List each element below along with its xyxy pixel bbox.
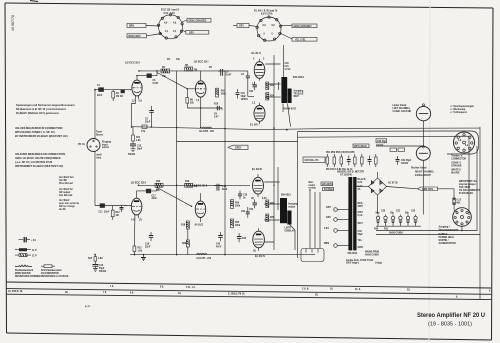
resistor R24 [266, 93, 275, 101]
svg-text:Versorgungsgerät: Versorgungsgerät [439, 228, 459, 231]
svg-text:C 6, 8;: C 6, 8; [302, 288, 309, 290]
capacitor C12 [128, 144, 143, 156]
svg-text:LEFT CHANNEL: LEFT CHANNEL [393, 107, 411, 110]
wire anode rail upper [139, 70, 240, 72]
svg-text:50µF: 50µF [241, 96, 247, 98]
wire input vertical lower [94, 152, 96, 206]
wire cap bank bus [376, 225, 421, 227]
svg-text:C31: C31 [396, 211, 401, 213]
svg-text:C23: C23 [249, 209, 254, 211]
svg-text:C12: C12 [137, 146, 142, 148]
extra labels caps row [374, 211, 416, 231]
svg-text:5, 23/6,8; P6 16,: 5, 23/6,8; P6 16, [228, 294, 245, 296]
svg-text:0,047: 0,047 [153, 82, 159, 85]
svg-text:22nF: 22nF [104, 212, 110, 214]
wire EL84 III anode to T2 [264, 182, 279, 204]
wire [151, 116, 153, 126]
svg-text:C21: C21 [285, 66, 290, 68]
capacitor C42 [216, 232, 223, 248]
svg-text:C13: C13 [99, 265, 104, 267]
wire bus A [6, 282, 491, 288]
wire T2 secondary down [290, 225, 296, 251]
svg-text:6,3V: 6,3V [358, 186, 363, 188]
wire mains 1 [309, 190, 311, 249]
svg-text:Ue=40mV for: Ue=40mV for [59, 188, 73, 191]
speaker right channel [411, 146, 435, 177]
svg-text:EL 84 II: EL 84 II [252, 51, 261, 55]
svg-text:MAUVE: MAUVE [451, 172, 460, 175]
resistor R8 [185, 65, 198, 72]
svg-text:TR BLUE: TR BLUE [294, 93, 304, 95]
svg-text:500/2k: 500/2k [99, 271, 107, 273]
svg-text:WITH RADIO-TUNER ( f.i. NF 1: WITH RADIO-TUNER ( f.i. NF 10 ) [15, 130, 55, 134]
wire rail y141.5 [177, 141, 298, 143]
resistor R18 [181, 221, 189, 232]
wire to speaker2 [376, 145, 424, 147]
wire B+ rail long [132, 127, 480, 130]
svg-text:22nF: 22nF [145, 121, 151, 123]
extra pin labels EL84 [251, 59, 267, 253]
svg-text:A6 B (7): A6 B (7) [195, 224, 204, 227]
svg-text:Stereo: Stereo [96, 133, 104, 136]
svg-text:26,: 26, [315, 295, 319, 297]
svg-text:≈= Gleichspannungen: ≈= Gleichspannungen [450, 105, 475, 108]
svg-text:mains: mains [309, 185, 316, 187]
capacitor C34 [414, 215, 417, 227]
legend wirewound [15, 265, 41, 278]
wire speaker 2 down [422, 160, 424, 214]
svg-text:C32 50µF: C32 50µF [401, 160, 412, 162]
svg-text:BRN: BRN [324, 243, 329, 245]
svg-text:Geräte-Sich. FUSE T0,8A: Geräte-Sich. FUSE T0,8A [346, 259, 374, 262]
resistor R11 [132, 127, 142, 144]
fuse F1 [453, 198, 462, 205]
svg-text:WHITE U: WHITE U [451, 170, 461, 172]
svg-text:R2,5 R2,5 6,8k 50µ 1k 1k: R2,5 R2,5 6,8k 50µ 1k 1k [326, 169, 353, 171]
svg-text:RESISTANCE A COUCHE: RESISTANCE A COUCHE [41, 275, 69, 278]
svg-text:7 6,: 7 6, [103, 292, 107, 294]
wire socket down [461, 226, 463, 230]
svg-text:500/2k: 500/2k [128, 154, 136, 156]
legend right [450, 105, 475, 114]
wire T1 secondary [288, 104, 291, 127]
svg-text:500-0313: 500-0313 [281, 195, 291, 197]
svg-text:IF DOUBLES: IF DOUBLES [459, 193, 473, 195]
svg-text:R12: R12 [116, 212, 121, 214]
svg-text:BRN: BRN [129, 26, 134, 28]
resistor R16 [185, 181, 198, 188]
extra labels transformer right [358, 186, 364, 225]
svg-text:ECC 83 I and II: ECC 83 I and II [161, 8, 179, 12]
resistor network row [326, 151, 377, 171]
svg-text:R13: R13 [156, 181, 161, 183]
resistor R14 input ground [88, 255, 103, 264]
svg-text:PO 10,: PO 10, [78, 144, 86, 146]
connector circle 1 [326, 207, 349, 211]
extra labels upper channel [167, 58, 219, 106]
svg-text:(19 - 8035 - 1001): (19 - 8035 - 1001) [428, 322, 472, 328]
legend resistor symbol open [15, 254, 37, 258]
label box GRY [186, 31, 209, 35]
svg-text:p. m.: p. m. [85, 306, 91, 308]
svg-text:≈= Tonfrequenz: ≈= Tonfrequenz [450, 111, 468, 114]
svg-text:500-0313: 500-0313 [293, 75, 305, 79]
svg-text:6,3V 0,76A: 6,3V 0,76A [261, 13, 273, 16]
tube socket ECC83 I and II [157, 8, 183, 40]
svg-text:≈= Wechselsp.: ≈= Wechselsp. [450, 108, 466, 111]
svg-text:IMPORTANT: No: IMPORTANT: No [459, 180, 477, 183]
label box GRY2 [237, 24, 249, 28]
svg-text:Ausgang: Ausgang [294, 90, 304, 93]
svg-text:R20: R20 [182, 243, 187, 245]
note french [15, 151, 65, 168]
svg-text:RESISTANCE BOBINEE: RESISTANCE BOBINEE [15, 275, 41, 278]
svg-text:1,8k: 1,8k [138, 251, 143, 253]
wire gry link [233, 25, 237, 27]
wire rail x225 [224, 71, 226, 127]
svg-text:entrée: entrée [102, 146, 110, 149]
svg-text:NF-Baustein (z.B. NF 10 ): NF-Baustein (z.B. NF 10 ) mit Instrument [16, 107, 66, 111]
capacitor C33 [405, 213, 410, 227]
wire cathode lower [187, 107, 222, 109]
svg-text:WIRE WOUND: WIRE WOUND [15, 273, 31, 275]
wire anode link upper [137, 75, 147, 77]
svg-text:AH50 CU/BH: AH50 CU/BH [365, 254, 379, 257]
resistor R20 [182, 232, 189, 255]
svg-text:C42: C42 [216, 243, 221, 246]
svg-text:6,3V: 6,3V [262, 198, 267, 200]
svg-text:R51 R52 R53 C35 R54 R55: R51 R52 R53 C35 R54 R55 [326, 151, 355, 154]
svg-text:C22: C22 [249, 91, 254, 93]
svg-text:SCHW. U: SCHW. U [451, 163, 461, 165]
socket top labels [451, 156, 466, 175]
resistor R45 [231, 219, 241, 228]
svg-text:1/2 ECC 83 II: 1/2 ECC 83 II [192, 183, 208, 187]
resistor R13 [155, 181, 163, 192]
input socket jack [78, 132, 112, 160]
legend film resistor [41, 265, 69, 278]
svg-text:16,: 16, [330, 289, 334, 291]
capacitor C11 [98, 203, 110, 213]
svg-text:C24: C24 [241, 210, 246, 213]
svg-text:EL 84 III: EL 84 III [252, 167, 262, 171]
resistor R6 [186, 98, 195, 108]
capacitor C32 [399, 215, 402, 227]
svg-text:RED: RED [358, 203, 363, 205]
svg-text:TO AIR CONNECTS: TO AIR CONNECTS [459, 189, 481, 192]
capacitor C18 [214, 184, 227, 191]
svg-text:4W output: 4W output [59, 191, 70, 194]
wire coupling diagonal to V1b [157, 73, 187, 89]
svg-text:C25: C25 [242, 238, 247, 240]
wire heater drop [282, 45, 284, 77]
wire outer box right [479, 127, 481, 299]
svg-text:OPT/+50mV: OPT/+50mV [354, 146, 367, 148]
wire transformer to bridge [357, 186, 369, 188]
svg-text:270V: 270V [358, 212, 364, 214]
svg-text:Ua=4W: Ua=4W [59, 179, 68, 182]
capacitor C22 [249, 82, 257, 94]
svg-text:MA.: MA. [457, 201, 462, 204]
svg-text:blau: blau [96, 157, 101, 159]
svg-text:AH 1255 - 202: AH 1255 - 202 [196, 257, 212, 260]
resistor R52 [333, 154, 336, 167]
svg-text:10 987/78: 10 987/78 [11, 15, 15, 31]
wire EL84 IV anode to T2 [264, 220, 279, 242]
resistor R1 [112, 90, 120, 101]
svg-text:AH50 CU/BH: AH50 CU/BH [389, 232, 403, 235]
capacitor C24 coupling lower [241, 207, 250, 218]
wire bridge out [387, 187, 418, 189]
svg-text:R21: R21 [138, 248, 143, 250]
svg-text:GRN | GRN-RED: GRN | GRN-RED [189, 20, 207, 22]
svg-text:output: output [288, 205, 295, 208]
svg-text:C33: C33 [411, 211, 416, 213]
svg-text:≈ K1: ≈ K1 [31, 239, 37, 242]
svg-text:(7): (7) [139, 220, 142, 222]
capacitor C32 [396, 156, 412, 165]
svg-text:(2): (2) [253, 251, 256, 253]
wire speaker join [423, 121, 425, 146]
svg-text:21, 6,: 21, 6, [355, 289, 361, 291]
wire EL84 II anode to T1 [265, 64, 280, 84]
wire [182, 30, 186, 32]
capacitor C29 [376, 213, 381, 227]
svg-text:WHT: WHT [358, 223, 364, 225]
svg-text:GRN: GRN [358, 247, 363, 249]
choke AH1255-202 lower [196, 253, 212, 260]
capacitor C13 with ground [93, 265, 107, 274]
capacitor C19 [238, 191, 248, 200]
svg-text:R41: R41 [384, 228, 389, 231]
svg-text:250V: 250V [358, 206, 364, 208]
svg-text:C28 604+176: C28 604+176 [305, 159, 320, 162]
svg-text:BRN | WHT: BRN | WHT [129, 36, 142, 38]
svg-text:WHT: WHT [294, 96, 300, 98]
svg-text:11 P: 11 P [32, 256, 37, 258]
svg-text:GRY: GRY [326, 207, 331, 209]
svg-text:(2): (2) [251, 198, 254, 200]
box C28 [303, 157, 325, 163]
wire [182, 20, 187, 22]
resistor R55 [361, 154, 364, 167]
svg-text:16,: 16, [178, 293, 182, 295]
fold crease [429, 0, 430, 343]
capacitor C31 [390, 213, 395, 227]
svg-text:C17: C17 [152, 195, 157, 197]
svg-text:GRY: GRY [326, 217, 331, 219]
svg-text:R14: R14 [88, 257, 93, 260]
capacitor C36 [368, 156, 372, 166]
svg-text:Ausgang: Ausgang [288, 203, 298, 206]
svg-text:Schichtwiderstand: Schichtwiderstand [41, 269, 62, 272]
pentode EL84 I [250, 103, 265, 127]
label box BRN-WHT [127, 34, 147, 38]
wire rail x176 [176, 71, 178, 255]
svg-text:R16: R16 [185, 181, 190, 183]
capacitor C17 [146, 185, 158, 200]
svg-text:19, 23/6,8; 46,: 19, 23/6,8; 46, [8, 290, 23, 293]
svg-text:Eingang: Eingang [102, 142, 112, 144]
choke AH1255-202 [199, 127, 215, 133]
svg-text:4W sur charge: 4W sur charge [59, 205, 76, 208]
wire inner rail [298, 131, 477, 231]
svg-text:ALIMENTATION: ALIMENTATION [439, 242, 456, 245]
svg-text:GREY: GREY [235, 147, 242, 149]
ground symbol bus [141, 255, 146, 261]
wire inner box [298, 136, 469, 215]
svg-text:GRY: GRY [239, 26, 244, 28]
svg-text:C7a: C7a [141, 131, 146, 133]
svg-text:R40: R40 [374, 228, 379, 231]
svg-text:220-240V~: 220-240V~ [322, 183, 334, 186]
svg-text:22nF: 22nF [222, 189, 228, 191]
svg-text:AH 1255 - 202: AH 1255 - 202 [199, 130, 215, 133]
wire screen vertical lower [277, 167, 279, 210]
power transformer TR [337, 171, 383, 265]
connector circle 4 [324, 243, 349, 247]
svg-text:GRAUBR.: GRAUBR. [451, 165, 462, 168]
fuse holder C7a [141, 125, 147, 133]
svg-text:C35 50µ: C35 50µ [377, 141, 386, 143]
svg-text:Ue=40mV bei: Ue=40mV bei [59, 176, 74, 179]
note levels 2 [59, 188, 73, 197]
svg-text:EL 84 IV: EL 84 IV [255, 254, 265, 258]
connector circle 2 [326, 217, 349, 221]
svg-text:C19: C19 [243, 195, 248, 197]
svg-text:EL 84 I, II, III and IV: EL 84 I, II, III and IV [254, 9, 278, 13]
resistor R5 [161, 67, 170, 78]
svg-text:0,5A: 0,5A [324, 227, 329, 230]
bridge rectifier [369, 178, 399, 195]
svg-text:Linker Kanal: Linker Kanal [393, 105, 407, 107]
svg-text:reseau: reseau [309, 188, 317, 190]
svg-text:GRN | GRN-WHT: GRN | GRN-WHT [294, 26, 313, 28]
svg-text:16/18V: 16/18V [376, 145, 384, 147]
note levels 1 [59, 176, 74, 185]
label box YEL [292, 38, 317, 42]
svg-text:RIGHT CHANNEL: RIGHT CHANNEL [415, 171, 435, 174]
legend capacitor symbol [19, 237, 37, 242]
mains freq box [323, 188, 334, 192]
svg-text:MAINS PRIM.: MAINS PRIM. [365, 251, 380, 254]
wire grid feed lower [95, 205, 132, 207]
resistor R54 [354, 154, 357, 167]
wire C4 to EL84 grid [248, 82, 254, 97]
wire to EL84 socket [249, 26, 258, 27]
triode V1b 1/2 ECC83 I [194, 60, 209, 109]
note german [16, 103, 75, 115]
wire bus B [6, 289, 491, 295]
svg-text:0,12: 0,12 [457, 200, 462, 202]
capacitor C9 [218, 69, 232, 77]
tube socket EL84 I II III IV [254, 9, 282, 42]
svg-text:R10: R10 [214, 104, 219, 106]
svg-text:Netz: Netz [309, 181, 315, 184]
resistor R22 [266, 82, 275, 90]
svg-text:5 11, 1 6,: 5 11, 1 6, [186, 287, 196, 289]
svg-text:Rechter Kanal: Rechter Kanal [411, 167, 427, 170]
wire fuse to socket [454, 205, 457, 213]
svg-text:BLACK: BLACK [358, 178, 366, 181]
wire [147, 34, 163, 36]
svg-text:R45: R45 [235, 221, 240, 224]
resistor R53 [340, 154, 343, 167]
wire V1b grid [187, 89, 195, 98]
resistor R23 [266, 200, 275, 208]
resistor R10 [216, 88, 227, 97]
svg-text:de 3Ω: de 3Ω [59, 209, 66, 211]
svg-text:1/2 ECC 83 I: 1/2 ECC 83 I [194, 60, 209, 64]
svg-text:C11: C11 [98, 212, 103, 214]
svg-text:AT 120/240: AT 120/240 [340, 174, 353, 177]
wire mains 3 [319, 192, 321, 249]
wire [146, 25, 160, 28]
svg-text:4,7nF: 4,7nF [285, 68, 292, 71]
resistor R56 [375, 154, 378, 167]
socket labels [439, 226, 459, 245]
svg-text:internal jumper.: internal jumper. [459, 183, 476, 186]
wire [200, 108, 202, 128]
transformer secondary labels [358, 178, 366, 249]
pentode EL84 II [252, 51, 265, 81]
svg-text:AC 87 35: AC 87 35 [388, 182, 398, 185]
svg-text:Stereo Amplifier NF 20 U: Stereo Amplifier NF 20 U [417, 312, 485, 319]
wire bus C [6, 294, 491, 299]
label box BRN [127, 24, 146, 28]
labels C20 C21 [285, 63, 292, 71]
resistor R50 [231, 200, 241, 209]
svg-text:C16: C16 [145, 244, 150, 246]
wire EL84 I anode to T1 [265, 96, 280, 98]
svg-text:VALUES MEASURED IN CONNECTI: VALUES MEASURED IN CONNECTION [15, 126, 62, 130]
svg-text:Ausgang /: Ausgang / [439, 226, 450, 229]
octal socket connector top [454, 132, 475, 153]
svg-text:C18: C18 [222, 186, 227, 188]
capacitor C4 coupling upper [241, 71, 250, 82]
svg-text:C33: C33 [358, 231, 363, 233]
capacitor C16 [145, 232, 153, 248]
svg-text:23,: 23, [407, 289, 411, 291]
svg-text:22nF: 22nF [152, 198, 158, 200]
svg-text:EL 84 I: EL 84 I [250, 123, 259, 127]
capacitor C23 [249, 200, 257, 212]
note important [459, 180, 481, 195]
svg-text:GN/BLAU: GN/BLAU [285, 229, 296, 232]
wire input vertical [94, 90, 96, 139]
resistor R25 [266, 214, 275, 222]
pointer flag 700V [418, 187, 438, 191]
wire rail to C4 [240, 70, 248, 72]
svg-text:50µF: 50µF [99, 268, 105, 270]
output transformer T1 [281, 75, 304, 103]
svg-text:C20: C20 [285, 63, 290, 65]
capacitor C35 [347, 156, 351, 166]
svg-text:50µ: 50µ [390, 213, 395, 215]
pentode EL84 III [252, 167, 264, 197]
wire [221, 108, 223, 110]
wire anode link lower [137, 190, 146, 192]
svg-text:0,047: 0,047 [226, 74, 232, 77]
svg-text:0,1A: 0,1A [358, 214, 363, 217]
box left cap C35 [376, 139, 387, 147]
wire anode rail lower [139, 184, 251, 186]
svg-text:1 6,: 1 6, [110, 286, 114, 288]
connector circle 3 [324, 227, 349, 232]
svg-text:pour une sortie de: pour une sortie de [59, 202, 80, 205]
svg-text:GRY: GRY [189, 32, 194, 34]
note english [15, 126, 68, 138]
